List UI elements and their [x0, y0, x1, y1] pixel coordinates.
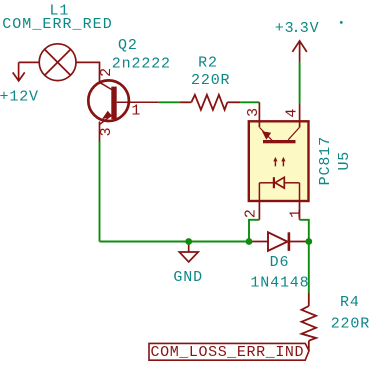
svg-text:4: 4: [284, 108, 301, 118]
junction dot right of D6: [305, 238, 312, 245]
svg-text:COM_LOSS_ERR_IND: COM_LOSS_ERR_IND: [151, 344, 305, 361]
svg-text:1: 1: [131, 102, 141, 119]
lamp L1: [19, 44, 100, 83]
optocoupler U5 PC817 body: [249, 121, 309, 201]
svg-text:2n2222: 2n2222: [112, 55, 171, 72]
transistor Q2: [88, 80, 158, 142]
resistor R4: [302, 293, 317, 351]
junction dot left of D6: [246, 238, 253, 245]
svg-text:3: 3: [98, 127, 115, 137]
svg-text:U5: U5: [336, 151, 353, 171]
svg-text:1: 1: [288, 208, 305, 218]
wire +3.3V to U5 pin4: [299, 62, 301, 103]
svg-text:+12V: +12V: [0, 89, 39, 106]
svg-text:GND: GND: [173, 269, 203, 286]
svg-text:COM_ERR_RED: COM_ERR_RED: [2, 16, 113, 33]
svg-text:R2: R2: [198, 54, 218, 71]
svg-text:3: 3: [245, 107, 262, 117]
power symbol +12V: [13, 62, 25, 81]
U5 pin 1 lead: [299, 201, 301, 220]
U5 LED inside: [259, 177, 299, 201]
resistor R2: [180, 95, 240, 110]
U5 light arrow right: [281, 157, 285, 166]
power symbol +3.3V: [292, 41, 306, 63]
wire U5 pin2 bend: [249, 220, 259, 242]
svg-text:PC817: PC817: [317, 136, 334, 185]
svg-text:D6: D6: [270, 254, 290, 271]
U5 phototransistor base bar: [263, 140, 296, 143]
ground GND: [179, 242, 198, 262]
U5 light arrow left: [273, 157, 277, 166]
svg-text:Q2: Q2: [118, 37, 138, 54]
junction dot GND: [185, 238, 192, 245]
wire bottom rail: [100, 241, 250, 243]
wire Q2 base to R2: [159, 101, 180, 103]
U5 pin 3 lead: [258, 102, 260, 127]
U5 phototransistor emitter arrow: [262, 131, 271, 140]
svg-text:1N4148: 1N4148: [250, 274, 309, 291]
wire R2 to U5 pin3: [240, 101, 259, 103]
wire junction to R4: [308, 242, 310, 294]
wire Q2 emitter down: [99, 142, 101, 242]
svg-text:R4: R4: [340, 294, 360, 311]
svg-text:+3.3V: +3.3V: [275, 20, 320, 37]
stray dot: [340, 21, 343, 24]
diode D6: [249, 232, 309, 251]
U5 pin 2 lead: [258, 201, 260, 220]
svg-text:220R: 220R: [331, 315, 370, 332]
net label flag COM_LOSS_ERR_IND: [149, 343, 309, 360]
svg-text:220R: 220R: [191, 72, 230, 89]
wire U5 pin1 bend: [300, 220, 309, 242]
U5 phototransistor emitter line: [260, 128, 272, 141]
U5 pin 4 lead: [299, 103, 301, 127]
U5 phototransistor collector line: [288, 127, 300, 140]
svg-text:2: 2: [242, 208, 259, 218]
